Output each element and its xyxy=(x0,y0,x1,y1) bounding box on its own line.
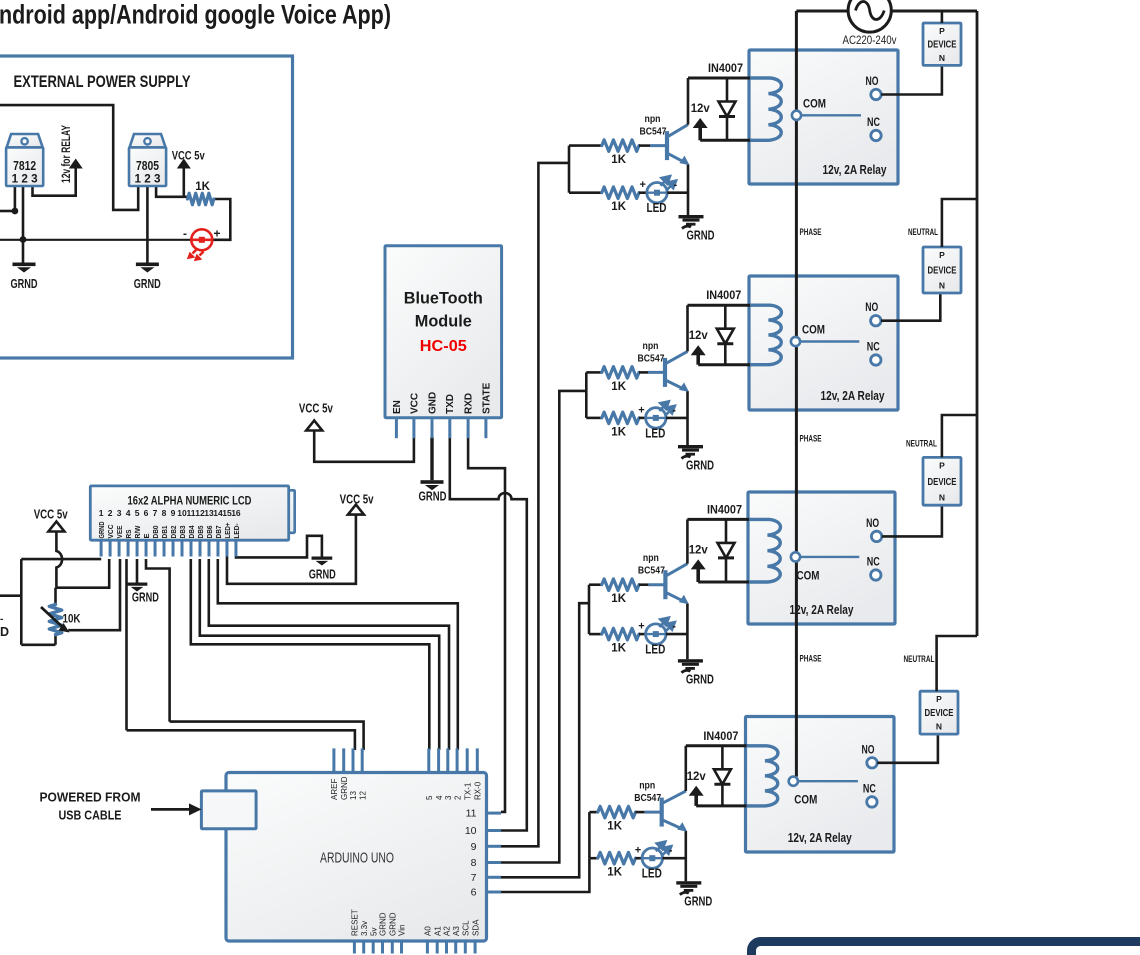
svg-text:1K: 1K xyxy=(195,181,210,193)
svg-text:16x2 ALPHA NUMERIC LCD: 16x2 ALPHA NUMERIC LCD xyxy=(128,496,252,508)
svg-text:-: - xyxy=(183,227,187,241)
svg-text:RX-0: RX-0 xyxy=(474,781,483,800)
svg-text:GRND: GRND xyxy=(686,459,714,473)
svg-text:1K: 1K xyxy=(611,643,626,655)
svg-text:NEUTRAL: NEUTRAL xyxy=(906,439,937,450)
svg-text:PHASE: PHASE xyxy=(800,227,822,238)
svg-text:3: 3 xyxy=(117,508,122,518)
svg-text:BC547: BC547 xyxy=(638,352,665,364)
svg-text:LED: LED xyxy=(647,201,667,215)
svg-text:NC: NC xyxy=(863,781,876,795)
svg-text:npn: npn xyxy=(639,780,655,792)
svg-text:DB2: DB2 xyxy=(169,526,178,539)
svg-text:COM: COM xyxy=(802,323,825,337)
svg-text:NO: NO xyxy=(866,74,879,88)
svg-text:P: P xyxy=(939,460,945,470)
svg-text:R/W: R/W xyxy=(133,525,142,538)
svg-text:7: 7 xyxy=(471,872,477,884)
svg-text:GRND: GRND xyxy=(340,776,349,800)
svg-text:P: P xyxy=(939,250,945,260)
svg-text:-: - xyxy=(672,404,676,416)
svg-text:VCC: VCC xyxy=(409,393,420,414)
svg-text:DEVICE: DEVICE xyxy=(928,266,957,277)
svg-text:2: 2 xyxy=(453,795,462,800)
svg-text:GRND: GRND xyxy=(379,912,388,936)
svg-text:5v: 5v xyxy=(369,928,378,936)
svg-text:A2: A2 xyxy=(443,926,452,936)
svg-text:DEVICE: DEVICE xyxy=(925,708,954,719)
svg-text:N: N xyxy=(939,493,945,503)
svg-text:npn: npn xyxy=(645,113,661,125)
svg-text:PHASE: PHASE xyxy=(800,654,822,665)
svg-text:DB3: DB3 xyxy=(178,526,187,539)
svg-text:LED-: LED- xyxy=(232,523,241,539)
svg-text:BC547: BC547 xyxy=(638,565,665,577)
svg-text:GRND: GRND xyxy=(389,912,398,936)
svg-text:A3: A3 xyxy=(452,926,461,936)
svg-text:DEVICE: DEVICE xyxy=(928,477,957,488)
svg-text:RS: RS xyxy=(124,529,133,538)
svg-text:DB7: DB7 xyxy=(214,526,223,539)
svg-text:12v, 2A Relay: 12v, 2A Relay xyxy=(821,389,885,403)
svg-text:+: + xyxy=(638,621,644,633)
svg-text:A1: A1 xyxy=(433,926,442,936)
svg-text:P: P xyxy=(936,694,942,704)
svg-text:2: 2 xyxy=(108,508,113,518)
svg-text:D: D xyxy=(0,625,9,639)
svg-text:SCL: SCL xyxy=(462,920,471,936)
svg-text:PHASE: PHASE xyxy=(800,434,822,445)
svg-text:LED: LED xyxy=(645,426,665,440)
svg-text:GRND: GRND xyxy=(686,673,714,687)
svg-text:Module: Module xyxy=(415,313,472,331)
svg-text:GRND: GRND xyxy=(97,522,106,539)
svg-text:COM: COM xyxy=(794,793,817,807)
svg-text:LED: LED xyxy=(642,867,662,881)
svg-text:GRND: GRND xyxy=(134,277,161,291)
svg-text:NC: NC xyxy=(867,340,880,354)
svg-text:VCC 5v: VCC 5v xyxy=(340,493,374,507)
svg-text:AREF: AREF xyxy=(330,779,339,800)
svg-text:+: + xyxy=(640,179,646,191)
svg-text:TXD: TXD xyxy=(445,394,456,414)
svg-text:USB CABLE: USB CABLE xyxy=(59,809,122,823)
svg-text:POWERED FROM: POWERED FROM xyxy=(40,791,141,805)
svg-text:VCC 5v: VCC 5v xyxy=(299,402,333,416)
svg-text:3.3v: 3.3v xyxy=(360,921,369,936)
svg-text:8: 8 xyxy=(471,857,477,869)
svg-text:5: 5 xyxy=(135,508,140,518)
svg-text:E: E xyxy=(142,533,151,538)
svg-text:SDA: SDA xyxy=(471,919,480,936)
svg-text:-: - xyxy=(669,845,673,857)
svg-text:4: 4 xyxy=(435,795,444,800)
svg-text:4: 4 xyxy=(126,508,131,518)
svg-text:ARDUINO UNO: ARDUINO UNO xyxy=(320,851,394,867)
svg-text:10K: 10K xyxy=(63,612,81,626)
svg-text:GRND: GRND xyxy=(132,591,159,605)
svg-text:1K: 1K xyxy=(611,154,626,166)
svg-text:STATE: STATE xyxy=(481,382,492,414)
svg-text:DB6: DB6 xyxy=(205,526,214,539)
svg-text:6: 6 xyxy=(471,887,477,899)
svg-text:GRND: GRND xyxy=(684,895,712,909)
svg-text:9: 9 xyxy=(471,841,477,853)
svg-text:7812: 7812 xyxy=(13,158,36,173)
svg-text:TX-1: TX-1 xyxy=(463,782,472,800)
svg-text:NC: NC xyxy=(867,115,880,129)
svg-text:1K: 1K xyxy=(611,426,626,438)
svg-text:12v: 12v xyxy=(689,328,708,342)
svg-text:GND: GND xyxy=(427,392,438,414)
svg-text:RESET: RESET xyxy=(351,909,360,936)
svg-text:VEE: VEE xyxy=(115,525,124,538)
svg-text:1K: 1K xyxy=(607,867,622,879)
svg-text:P: P xyxy=(939,26,945,36)
svg-text:NEUTRAL: NEUTRAL xyxy=(904,654,935,665)
svg-text:1K: 1K xyxy=(611,593,626,605)
svg-text:7805: 7805 xyxy=(136,158,159,173)
svg-text:IN4007: IN4007 xyxy=(706,288,741,302)
svg-text:13: 13 xyxy=(349,791,358,800)
svg-text:HC-05: HC-05 xyxy=(420,338,467,355)
svg-text:NC: NC xyxy=(867,555,880,569)
svg-text:ndroid app/Android google Voic: ndroid app/Android google Voice App) xyxy=(0,0,391,30)
svg-text:EXTERNAL POWER SUPPLY: EXTERNAL POWER SUPPLY xyxy=(14,73,191,91)
svg-text:5: 5 xyxy=(425,795,434,800)
svg-text:12v: 12v xyxy=(691,101,710,115)
svg-text:DB0: DB0 xyxy=(151,526,160,539)
svg-text:GRND: GRND xyxy=(419,490,447,504)
svg-text:NO: NO xyxy=(862,742,875,756)
svg-text:GRND: GRND xyxy=(11,277,38,291)
svg-text:DEVICE: DEVICE xyxy=(928,40,957,51)
svg-text:12v, 2A Relay: 12v, 2A Relay xyxy=(823,163,887,177)
svg-text:8: 8 xyxy=(162,508,167,518)
svg-text:-: - xyxy=(674,179,678,191)
svg-text:VCC 5v: VCC 5v xyxy=(172,149,205,163)
svg-text:1 2 3: 1 2 3 xyxy=(135,174,161,186)
svg-text:N: N xyxy=(939,53,945,63)
svg-text:BlueTooth: BlueTooth xyxy=(404,290,483,308)
svg-text:-: - xyxy=(0,614,3,625)
svg-text:NEUTRAL: NEUTRAL xyxy=(908,227,938,238)
svg-text:3: 3 xyxy=(444,795,453,800)
svg-text:IN4007: IN4007 xyxy=(703,729,738,743)
svg-text:Vin: Vin xyxy=(398,925,407,936)
svg-text:12v: 12v xyxy=(687,769,706,783)
svg-text:LED: LED xyxy=(645,643,665,657)
svg-text:BC547: BC547 xyxy=(634,792,661,804)
svg-text:16: 16 xyxy=(231,508,241,518)
svg-text:EN: EN xyxy=(392,400,403,414)
svg-text:VCC: VCC xyxy=(106,525,115,539)
svg-text:DB1: DB1 xyxy=(160,526,169,539)
svg-text:AC220-240v: AC220-240v xyxy=(843,35,897,47)
svg-text:A0: A0 xyxy=(424,926,433,936)
svg-text:7: 7 xyxy=(153,508,158,518)
svg-text:N: N xyxy=(939,281,945,291)
svg-text:N: N xyxy=(936,722,942,732)
svg-text:1K: 1K xyxy=(611,381,626,393)
svg-text:COM: COM xyxy=(803,96,826,110)
svg-text:npn: npn xyxy=(643,340,659,352)
svg-text:12v: 12v xyxy=(689,542,708,556)
svg-text:IN4007: IN4007 xyxy=(707,502,742,516)
svg-text:+: + xyxy=(638,404,644,416)
svg-text:BC547: BC547 xyxy=(640,126,667,138)
svg-text:NO: NO xyxy=(865,300,878,314)
svg-text:12v for RELAY: 12v for RELAY xyxy=(59,125,73,183)
svg-text:COM: COM xyxy=(797,568,820,582)
svg-text:npn: npn xyxy=(643,552,659,564)
svg-text:1K: 1K xyxy=(607,821,622,833)
svg-text:11: 11 xyxy=(466,808,477,820)
svg-text:NO: NO xyxy=(866,516,879,530)
svg-text:IN4007: IN4007 xyxy=(708,61,743,75)
svg-text:RXD: RXD xyxy=(464,393,475,414)
svg-text:VCC 5v: VCC 5v xyxy=(34,508,68,522)
svg-text:-: - xyxy=(672,621,676,633)
svg-text:+: + xyxy=(635,845,641,857)
svg-text:12: 12 xyxy=(358,791,367,800)
svg-text:+: + xyxy=(214,227,221,241)
svg-text:6: 6 xyxy=(144,508,149,518)
svg-text:1: 1 xyxy=(99,508,104,518)
svg-text:1 2 3: 1 2 3 xyxy=(12,174,38,186)
svg-text:9: 9 xyxy=(171,508,176,518)
svg-text:GRND: GRND xyxy=(687,229,715,243)
svg-text:12v, 2A Relay: 12v, 2A Relay xyxy=(788,831,852,845)
svg-text:DB5: DB5 xyxy=(196,526,205,539)
svg-text:10: 10 xyxy=(465,825,477,837)
svg-text:DB4: DB4 xyxy=(187,526,196,539)
svg-text:LED+: LED+ xyxy=(223,523,232,539)
svg-text:12v, 2A Relay: 12v, 2A Relay xyxy=(790,603,854,617)
svg-text:GRND: GRND xyxy=(309,568,336,582)
svg-text:1K: 1K xyxy=(611,201,626,213)
